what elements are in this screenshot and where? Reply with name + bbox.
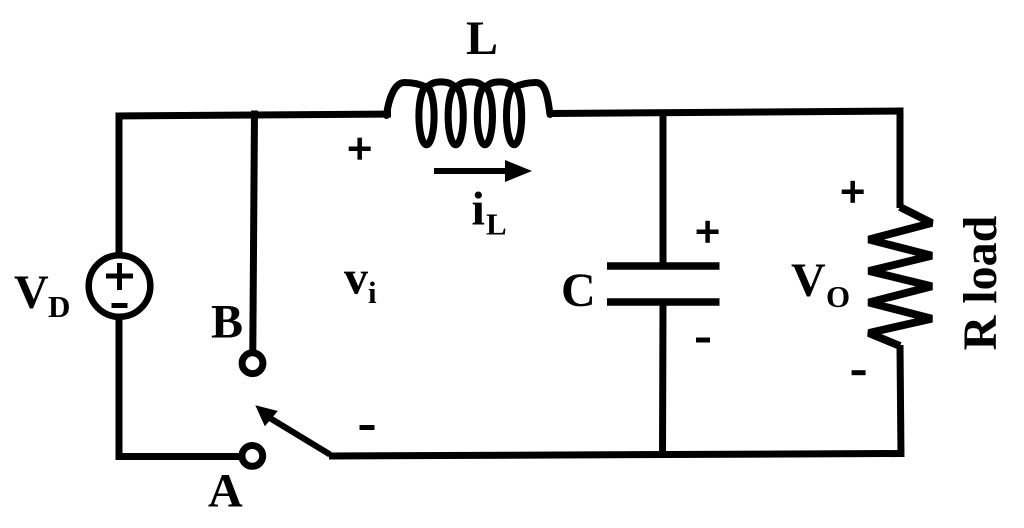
svg-text:v: v bbox=[344, 252, 368, 305]
svg-text:O: O bbox=[826, 279, 850, 314]
minus sign at vi bottom bbox=[360, 425, 375, 430]
wire left vertical lower bbox=[116, 317, 123, 460]
wire bottom left bbox=[116, 453, 241, 460]
voltage source minus bbox=[112, 303, 128, 308]
capacitor C top plate bbox=[607, 262, 720, 270]
svg-text:V: V bbox=[14, 266, 49, 319]
svg-text:L: L bbox=[466, 12, 498, 65]
wire top right bbox=[551, 111, 904, 114]
wire capacitor branch lower bbox=[659, 302, 667, 458]
inductor L coil bbox=[387, 82, 551, 116]
svg-text:C: C bbox=[561, 264, 596, 317]
svg-text:V: V bbox=[791, 254, 826, 307]
capacitor C bottom plate bbox=[607, 298, 720, 306]
wire bottom right bbox=[329, 454, 904, 457]
switch arm arrowhead bbox=[255, 405, 277, 426]
voltage source VD circle bbox=[89, 255, 151, 317]
wire right vertical lower bbox=[900, 345, 901, 457]
switch arm wire bbox=[269, 418, 330, 455]
minus sign at capacitor bbox=[696, 338, 710, 343]
svg-text:L: L bbox=[486, 207, 507, 242]
wire node B branch bbox=[253, 111, 255, 351]
minus sign at VO bbox=[852, 370, 866, 375]
svg-text:R load: R load bbox=[954, 215, 1007, 350]
svg-text:i: i bbox=[472, 183, 485, 236]
plus sign at vi top bbox=[349, 138, 371, 160]
svg-text:A: A bbox=[208, 465, 243, 518]
resistor R load zigzag bbox=[869, 207, 932, 346]
voltage source plus bbox=[106, 263, 133, 290]
wire left vertical upper bbox=[116, 113, 123, 257]
current iL arrowhead bbox=[505, 160, 532, 182]
svg-text:i: i bbox=[368, 275, 377, 310]
wire right vertical upper bbox=[897, 108, 904, 209]
plus sign at capacitor bbox=[697, 221, 719, 243]
svg-text:B: B bbox=[211, 296, 243, 349]
plus sign at VO bbox=[842, 181, 864, 203]
current iL arrow shaft bbox=[434, 168, 512, 174]
switch terminal A circle bbox=[242, 446, 263, 467]
switch terminal B circle bbox=[242, 353, 263, 374]
wire top left bbox=[116, 114, 392, 116]
svg-text:D: D bbox=[48, 289, 70, 324]
wire capacitor branch upper bbox=[660, 111, 667, 267]
